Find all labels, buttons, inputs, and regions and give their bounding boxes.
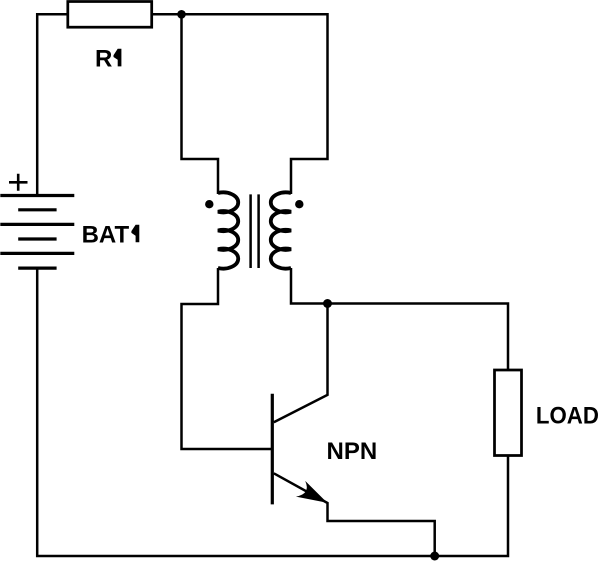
wire R1 right across top and down to transformer secondary top (152, 14, 328, 194)
svg-text:LOAD: LOAD (536, 403, 599, 430)
node C junction dot (430, 552, 439, 561)
svg-text:NPN: NPN (327, 438, 378, 465)
node A junction dot (177, 10, 186, 19)
wire primary bottom jog left and down to transistor base (182, 268, 273, 449)
battery BAT1 plate short 2 (18, 237, 56, 240)
primary phase dot (205, 200, 213, 208)
transistor Q1 collector lead (274, 304, 328, 423)
svg-text:BAT: BAT (82, 221, 130, 248)
node B junction dot (323, 299, 332, 308)
battery BAT1 plate short 1 (18, 208, 56, 211)
emitter arrowhead (296, 481, 327, 503)
battery BAT1 plate long 2 (0, 223, 74, 226)
wire secondary bottom right to LOAD top lead (291, 268, 508, 370)
svg-text:R: R (95, 45, 112, 72)
secondary phase dot (295, 200, 303, 208)
battery BAT1 plate short 3 (18, 267, 56, 270)
transistor Q1 base bar (271, 394, 274, 505)
transformer T1 primary winding (218, 192, 238, 268)
battery plus sign (9, 174, 28, 191)
battery BAT1 plate long 3 (0, 252, 74, 255)
wire node A down to transformer primary top (182, 14, 219, 194)
transistor Q1 emitter lead to bottom rail (274, 473, 435, 556)
transformer T1 secondary winding (271, 192, 291, 268)
wire LOAD bottom lead along bottom rail to battery minus (37, 268, 508, 556)
resistor LOAD (495, 370, 522, 456)
resistor R1 (68, 2, 152, 28)
wire battery plus terminal up and over to R1 (37, 14, 68, 195)
transformer core (251, 194, 259, 268)
battery BAT1 plate long 1 (0, 194, 74, 197)
